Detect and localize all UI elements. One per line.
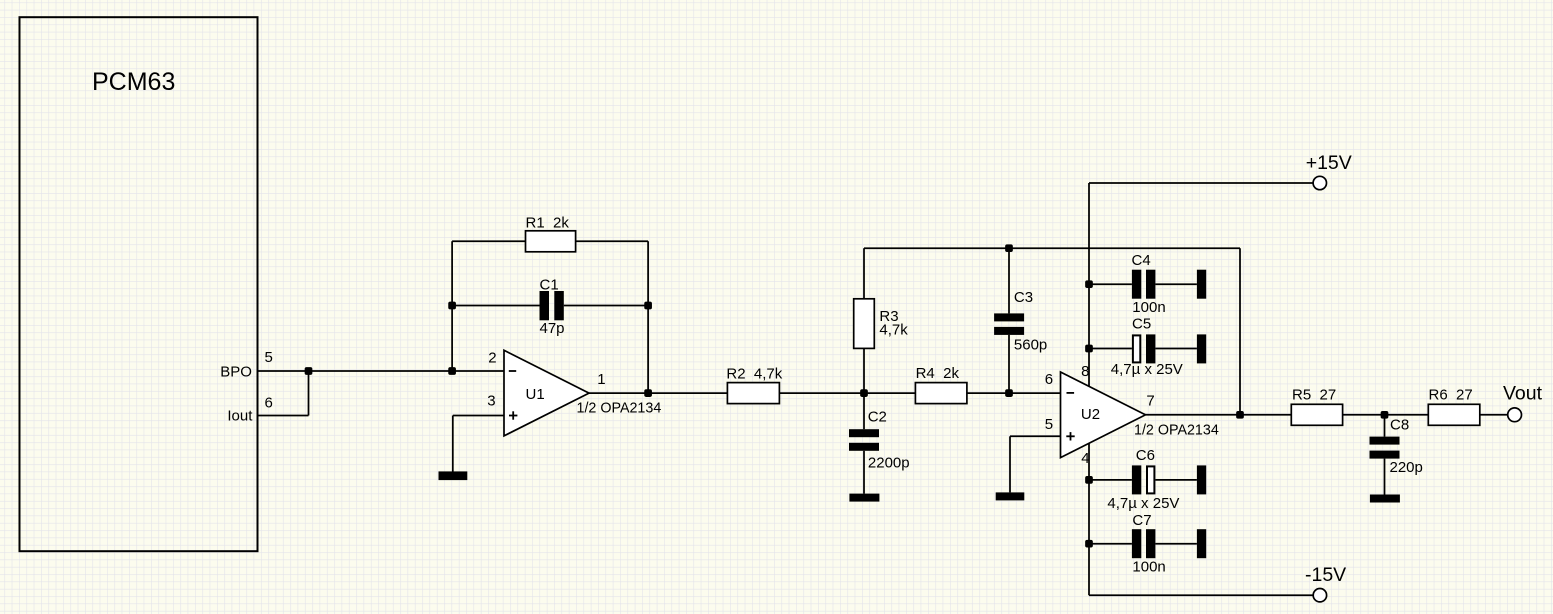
svg-text:1/2 OPA2134: 1/2 OPA2134 — [577, 401, 662, 417]
svg-text:R1 2k: R1 2k — [526, 215, 570, 232]
wire C8 ground stem — [1384, 459, 1386, 495]
wire R3 top lead — [863, 248, 865, 299]
svg-text:5: 5 — [265, 349, 273, 366]
junction U1 output / feedback — [644, 389, 652, 397]
wire -15V rail — [1089, 594, 1313, 596]
wire R2 to node N2 — [779, 392, 915, 394]
wire +15V column to U2 pin 8 — [1088, 183, 1090, 386]
wire C4 left lead — [1089, 283, 1132, 285]
resistor R5 body — [1291, 404, 1342, 425]
op-amp U2 triangle — [1061, 372, 1146, 458]
svg-text:R2 4,7k: R2 4,7k — [726, 366, 782, 383]
wire R6 to Vout terminal — [1480, 414, 1508, 416]
junction C4 on +15V column — [1085, 280, 1093, 288]
ground symbol at U2 non-inverting input — [996, 492, 1025, 500]
svg-text:-15V: -15V — [1305, 564, 1346, 586]
wire C3 top lead — [1008, 248, 1010, 313]
wire C5 right lead — [1155, 348, 1197, 350]
svg-text:C5: C5 — [1132, 316, 1151, 333]
wire C1 right lead — [564, 305, 648, 307]
wire top feedback rail — [864, 247, 1240, 249]
wire R3 bottom lead — [863, 348, 865, 393]
capacitor C2 plates — [849, 429, 879, 437]
wire C2 top lead — [863, 393, 865, 429]
wire R4 to U2 inverting input — [967, 392, 1061, 394]
wire C6 right lead — [1155, 479, 1197, 481]
wire feedback left riser — [451, 241, 453, 371]
junction C1 right — [644, 302, 652, 310]
svg-text:U1: U1 — [526, 386, 545, 403]
op-amp U1 triangle — [504, 350, 589, 436]
wire C7 right lead — [1155, 543, 1197, 545]
svg-text:1: 1 — [597, 371, 605, 388]
capacitor C4 plates — [1132, 270, 1141, 299]
ground symbol below C8 — [1370, 495, 1400, 503]
IC PCM63 body — [20, 17, 258, 551]
wire C7 left lead — [1089, 543, 1132, 545]
wire C2 ground stem — [863, 451, 865, 494]
junction C3 top on feedback rail — [1005, 244, 1013, 252]
net +15V terminal circle — [1313, 176, 1326, 189]
svg-text:+15V: +15V — [1306, 152, 1352, 174]
wire U2 plus-input ground stem — [1009, 436, 1011, 492]
svg-text:R4 2k: R4 2k — [916, 365, 960, 382]
svg-text:6: 6 — [1045, 371, 1053, 388]
resistor R6 body — [1428, 404, 1480, 425]
resistor R1 body — [526, 231, 576, 252]
svg-text:Iout: Iout — [227, 408, 253, 425]
svg-text:3: 3 — [487, 393, 495, 410]
svg-text:C2: C2 — [868, 409, 887, 426]
wire node to U1 inverting input — [309, 370, 505, 372]
svg-text:1/2 OPA2134: 1/2 OPA2134 — [1134, 423, 1219, 439]
svg-text:C8: C8 — [1390, 417, 1409, 434]
op-amp U2 minus input symbol — [1067, 392, 1075, 394]
svg-text:7: 7 — [1146, 393, 1154, 410]
wire U2 non-inverting input — [1010, 435, 1061, 437]
svg-text:C7: C7 — [1132, 512, 1151, 529]
junction BPO/Iout node — [305, 367, 313, 375]
wire R5 to C8 node — [1343, 414, 1429, 416]
svg-text:PCM63: PCM63 — [92, 68, 175, 96]
resistor R2 body — [727, 383, 779, 404]
svg-text:4,7µ x 25V: 4,7µ x 25V — [1107, 495, 1179, 512]
ground bar right of C6 — [1197, 465, 1206, 494]
capacitor C6 plates (electrolytic) — [1132, 465, 1141, 494]
svg-text:100n: 100n — [1132, 299, 1165, 316]
wire U1 ground stem — [452, 416, 454, 472]
capacitor C7 plates — [1132, 529, 1141, 558]
svg-text:2: 2 — [488, 349, 496, 366]
svg-text:C4: C4 — [1132, 252, 1151, 269]
resistor R3 body (vertical) — [854, 299, 875, 349]
net -15V terminal circle — [1313, 589, 1326, 602]
svg-text:C6: C6 — [1136, 447, 1155, 464]
svg-text:C3: C3 — [1014, 289, 1033, 306]
resistor R4 body — [915, 383, 967, 404]
wire C3 bottom lead — [1008, 335, 1010, 393]
wire BPO pin 5 stub — [258, 370, 309, 372]
svg-text:220p: 220p — [1390, 459, 1423, 476]
wire U2 pin 4 column to -15V — [1088, 443, 1090, 595]
svg-text:100n: 100n — [1132, 559, 1165, 576]
wire C6 left lead — [1089, 479, 1132, 481]
junction node R2/R3/C2/R4 — [860, 389, 868, 397]
ground bar right of C4 — [1197, 270, 1206, 299]
junction C6 on -15V column — [1085, 476, 1093, 484]
net Vout terminal circle — [1508, 408, 1522, 422]
ground symbol below C2 — [849, 494, 879, 502]
junction C3 bottom on signal line — [1005, 389, 1013, 397]
svg-text:4,7µ x 25V: 4,7µ x 25V — [1111, 361, 1183, 378]
svg-text:C1: C1 — [540, 276, 559, 293]
svg-text:BPO: BPO — [220, 364, 252, 381]
svg-text:Vout: Vout — [1503, 383, 1543, 405]
junction U2 output / feedback — [1236, 411, 1244, 419]
svg-text:R5 27: R5 27 — [1292, 386, 1336, 403]
op-amp U2 plus input symbol — [1066, 435, 1074, 437]
wire C1 left lead — [452, 305, 539, 307]
svg-text:U2: U2 — [1081, 406, 1100, 423]
svg-text:560p: 560p — [1014, 336, 1047, 353]
capacitor C8 plates — [1370, 437, 1400, 445]
junction U1 inverting input / feedback — [448, 367, 456, 375]
capacitor C3 plates — [994, 313, 1024, 321]
wire C5 left lead — [1089, 348, 1132, 350]
op-amp U1 minus input symbol — [509, 370, 516, 372]
svg-text:6: 6 — [265, 395, 273, 412]
svg-text:5: 5 — [1045, 416, 1053, 433]
capacitor C5 plates (electrolytic) — [1133, 335, 1140, 362]
wire feedback riser from output to top rail — [1239, 248, 1241, 415]
junction C1 left — [448, 302, 456, 310]
wire Iout riser to BPO net — [308, 371, 310, 416]
junction C5 on +15V column — [1085, 345, 1093, 353]
wire feedback right riser — [647, 241, 649, 393]
op-amp U1 plus input symbol — [509, 415, 517, 417]
wire R1 left lead — [452, 240, 525, 242]
junction C8 node — [1381, 411, 1389, 419]
svg-text:2200p: 2200p — [868, 455, 910, 472]
wire U1 non-inverting input — [453, 415, 504, 417]
wire U1 output — [589, 392, 727, 394]
wire R1 right lead — [576, 240, 649, 242]
svg-text:R6 27: R6 27 — [1429, 387, 1473, 404]
wire C8 top lead — [1384, 415, 1386, 437]
svg-text:47p: 47p — [540, 320, 565, 337]
junction C7 on -15V column — [1085, 540, 1093, 548]
ground bar right of C7 — [1197, 529, 1206, 558]
wire +15V rail — [1089, 182, 1313, 184]
wire C4 right lead — [1155, 283, 1197, 285]
capacitor C1 plates — [540, 291, 550, 320]
svg-text:4,7k: 4,7k — [879, 322, 908, 339]
ground bar right of C5 — [1197, 334, 1206, 363]
wire U2 output to R5 — [1146, 414, 1292, 416]
ground symbol at U1 non-inverting input — [439, 471, 468, 480]
wire Iout pin 6 stub — [258, 415, 309, 417]
